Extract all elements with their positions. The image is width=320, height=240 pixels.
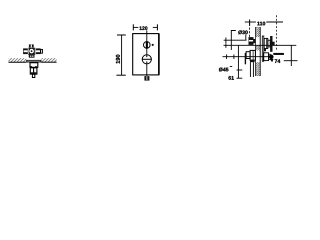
valve right inlet block	[35, 48, 40, 54]
label text Ø30	[238, 30, 247, 34]
main centerline tick	[225, 43, 227, 48]
lower centerline	[223, 56, 274, 58]
Ø45 leader stub	[230, 66, 232, 68]
dim 110 line	[245, 21, 256, 23]
dim text 190	[116, 55, 120, 64]
lower body box D	[250, 50, 255, 60]
wall hatch right span	[41, 58, 56, 62]
valve left inlet block	[23, 48, 28, 54]
lower knob circle	[142, 55, 151, 64]
escutcheon bar (on wall)	[26, 60, 41, 63]
dim 190 bottom tick	[116, 74, 125, 76]
block separators	[27, 48, 29, 54]
lever nub	[273, 42, 275, 46]
wall strip hatch lower	[255, 62, 260, 76]
dim 74 vertical line	[290, 45, 292, 66]
lower back bar	[245, 53, 246, 64]
handle knob striped	[30, 68, 37, 74]
upper stem	[268, 40, 270, 47]
outlet line	[284, 60, 298, 62]
lower knob box	[264, 53, 269, 61]
lever bar	[270, 36, 272, 52]
dim 120 ticks	[132, 24, 134, 30]
wall surface line right	[41, 61, 56, 63]
lever tail	[32, 74, 34, 77]
arrow below dot	[270, 59, 273, 62]
dim 120 line	[133, 26, 138, 28]
wall surface line left	[9, 61, 27, 63]
ref dot	[152, 44, 154, 46]
dim 110 right extension dashed	[275, 15, 277, 50]
wall strip hatch upper	[255, 27, 260, 37]
inlet fitting vline	[245, 34, 247, 40]
dim 110 left extension dashed	[249, 28, 251, 38]
pipe stub tick	[225, 38, 227, 44]
outlet knob below plate	[144, 76, 149, 81]
dim text 74	[275, 59, 281, 63]
valve lower block	[29, 55, 35, 58]
upper body connector	[254, 39, 256, 43]
plate rectangle	[133, 34, 159, 75]
handle base corner marks	[30, 66, 31, 67]
label Ø30 leader	[231, 31, 236, 51]
escutcheon edge-on	[262, 36, 264, 61]
thick bar	[274, 53, 284, 55]
lower centerline ticks	[226, 54, 228, 59]
upper cap box	[264, 38, 268, 48]
knob bottom band	[30, 72, 37, 74]
pipe stub line	[224, 39, 247, 41]
dim 61 bottom tick	[237, 77, 243, 79]
wall strip hatch middle	[255, 45, 260, 50]
drop pipe cap	[250, 60, 255, 62]
label text Ø45	[219, 68, 228, 72]
wall face lines	[255, 27, 257, 76]
valve top stub	[29, 44, 34, 47]
valve right stub	[41, 49, 43, 53]
cartridge circle	[29, 49, 34, 54]
dim 61 mid tick	[237, 69, 243, 71]
outlet dot	[269, 55, 273, 59]
upper body box A	[249, 37, 254, 45]
vertical dim 61 line	[237, 45, 239, 78]
wall hatch left span	[9, 58, 27, 62]
handle base plan	[30, 63, 38, 68]
dim 190 top tick	[117, 34, 126, 36]
dim text 120	[140, 26, 148, 30]
lower stem	[269, 54, 271, 59]
upper knob circle	[144, 42, 151, 49]
main centerline	[224, 44, 297, 46]
dim 110 left tick	[249, 20, 251, 27]
cap lower lug	[264, 49, 266, 52]
drop pipe	[249, 62, 251, 77]
vertical centerline	[146, 30, 148, 81]
lower body box C	[246, 52, 250, 59]
dim 190 line	[121, 35, 123, 75]
dim text 110	[257, 22, 265, 26]
valve center body	[28, 48, 35, 55]
label text 61	[228, 76, 233, 80]
